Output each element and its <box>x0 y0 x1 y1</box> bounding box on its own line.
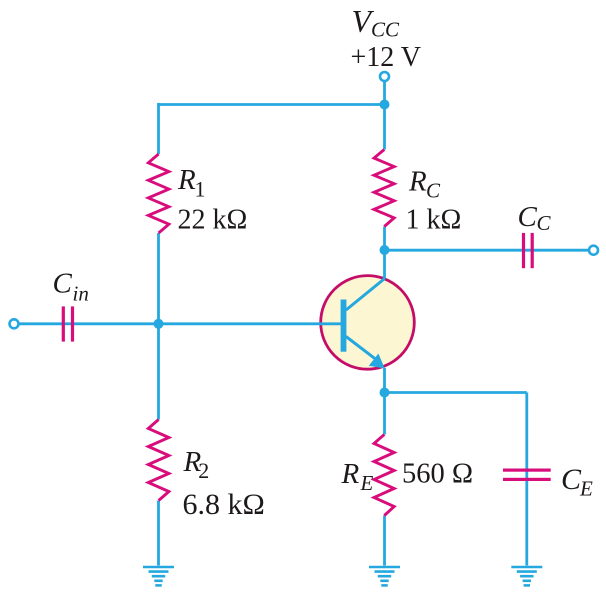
svg-text:E: E <box>360 471 374 495</box>
svg-text:E: E <box>579 477 593 501</box>
svg-text:C: C <box>537 211 552 235</box>
svg-text:2: 2 <box>198 458 209 483</box>
svg-text:C: C <box>561 463 582 496</box>
svg-text:1 kΩ: 1 kΩ <box>406 204 462 235</box>
svg-text:+12 V: +12 V <box>351 42 422 73</box>
svg-text:R: R <box>408 165 427 197</box>
svg-text:C: C <box>426 179 441 203</box>
svg-text:in: in <box>73 282 89 306</box>
svg-text:560 Ω: 560 Ω <box>402 458 473 489</box>
svg-text:R: R <box>177 164 196 196</box>
svg-text:22 kΩ: 22 kΩ <box>178 204 248 235</box>
svg-text:1: 1 <box>195 177 206 202</box>
svg-text:6.8 kΩ: 6.8 kΩ <box>183 488 265 521</box>
svg-text:C: C <box>518 201 538 233</box>
svg-text:R: R <box>341 458 360 490</box>
svg-text:CC: CC <box>371 18 400 42</box>
svg-text:C: C <box>53 268 73 300</box>
